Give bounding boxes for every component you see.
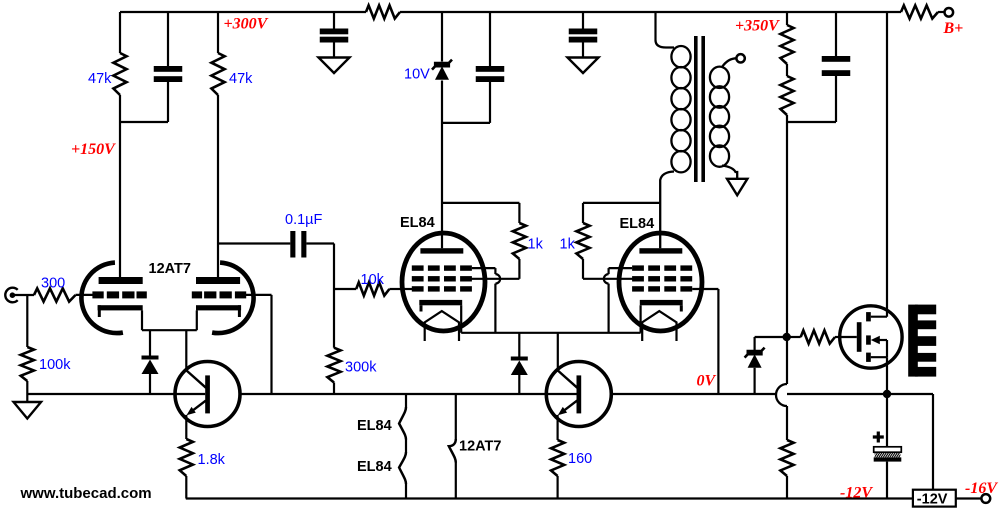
svg-text:EL84: EL84 (357, 459, 392, 475)
svg-text:EL84: EL84 (357, 418, 392, 434)
svg-text:47k: 47k (88, 71, 112, 87)
svg-text:-12V: -12V (917, 492, 948, 508)
svg-text:12AT7: 12AT7 (459, 439, 501, 455)
svg-text:EL84: EL84 (620, 216, 655, 232)
svg-text:-16V: -16V (965, 480, 998, 497)
svg-text:1k: 1k (560, 237, 576, 253)
svg-text:1k: 1k (528, 237, 544, 253)
svg-text:+350V: +350V (735, 18, 780, 35)
svg-text:+300V: +300V (224, 16, 269, 33)
svg-text:0V: 0V (697, 373, 717, 390)
svg-text:47k: 47k (229, 71, 253, 87)
svg-text:300k: 300k (345, 360, 377, 376)
svg-text:+150V: +150V (71, 141, 116, 158)
svg-text:-12V: -12V (840, 485, 873, 502)
svg-text:160: 160 (568, 451, 592, 467)
svg-text:10V: 10V (404, 67, 430, 83)
svg-text:10k: 10k (361, 272, 385, 288)
svg-text:0.1µF: 0.1µF (285, 212, 323, 228)
svg-text:1.8k: 1.8k (198, 452, 226, 468)
svg-text:B+: B+ (943, 20, 964, 37)
svg-text:100k: 100k (39, 357, 71, 373)
svg-text:www.tubecad.com: www.tubecad.com (20, 485, 152, 502)
svg-text:300: 300 (41, 276, 65, 292)
svg-text:12AT7: 12AT7 (149, 261, 191, 277)
svg-text:EL84: EL84 (400, 215, 435, 231)
